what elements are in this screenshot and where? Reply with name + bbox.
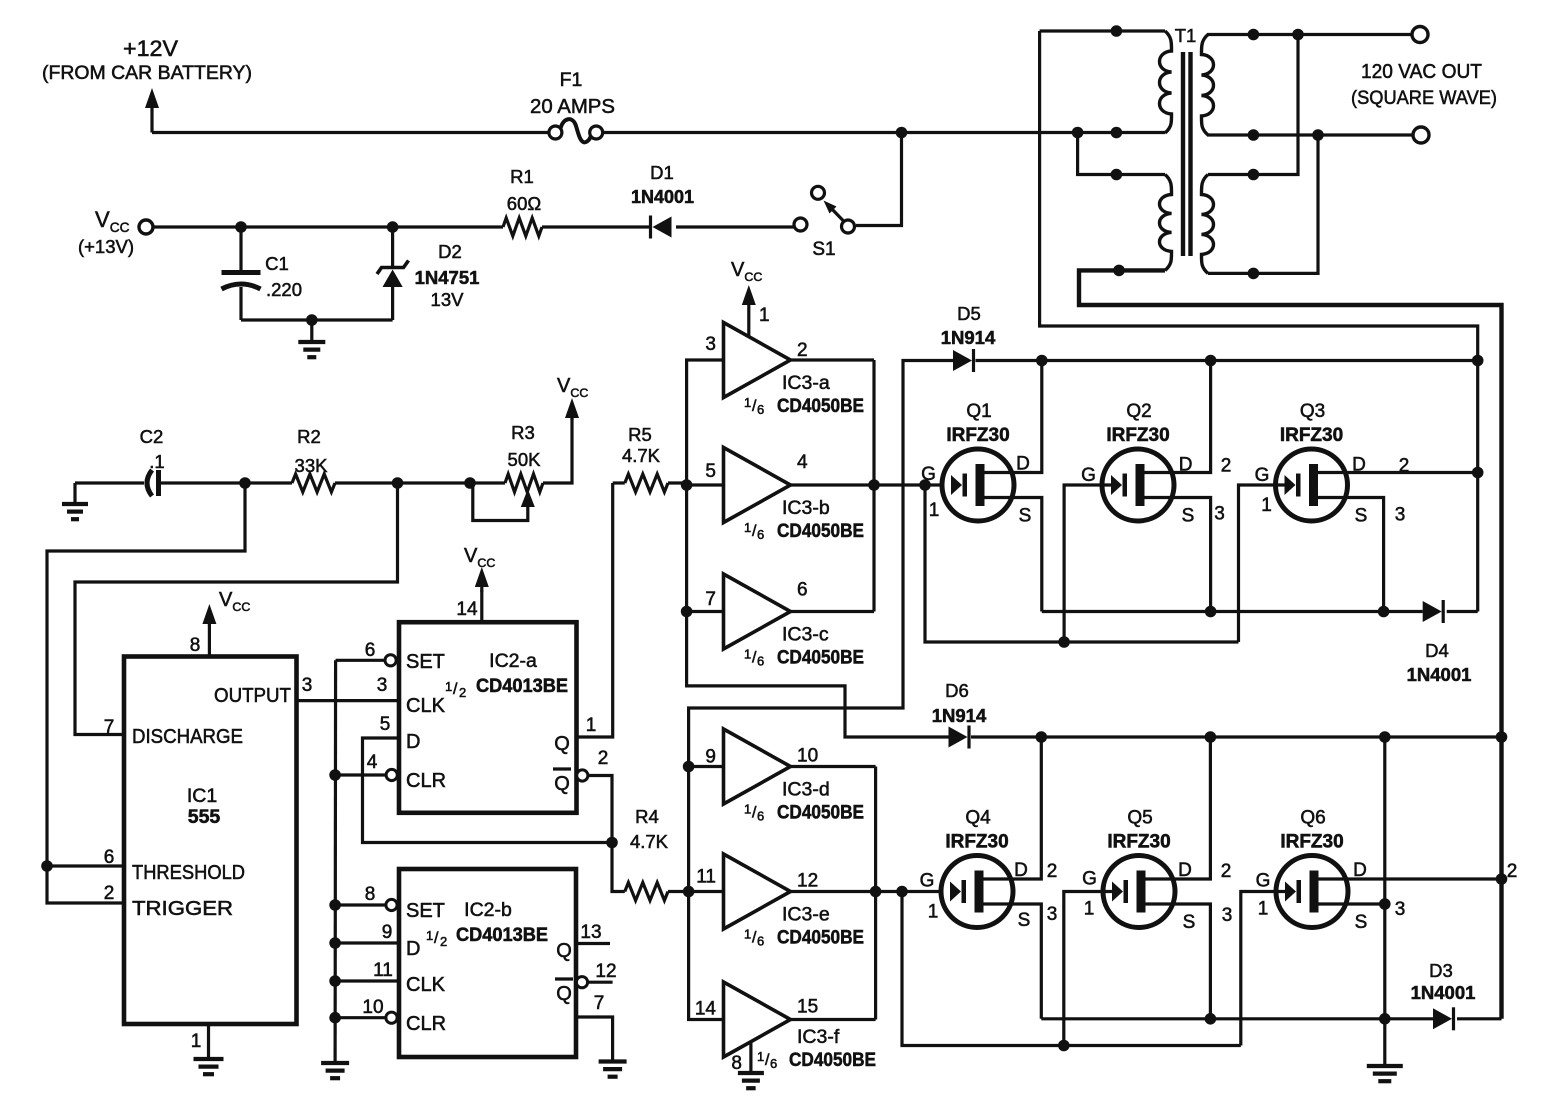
- svg-text:2: 2: [440, 934, 447, 949]
- terminal 120VAC neutral: [1413, 127, 1429, 143]
- svg-text:.1: .1: [149, 451, 164, 472]
- pin 3 input (IC3-a): [705, 334, 716, 355]
- flip-flop IC2-b block: [399, 869, 576, 1057]
- svg-text:G: G: [1256, 871, 1271, 892]
- flip-flop IC2-a block: [399, 622, 577, 813]
- junction C2/555 node: [239, 477, 251, 489]
- wire bus Qbar-side (R4 to IC3-d/e/f inputs and D5): [689, 361, 953, 1020]
- label IC2-b CD4013BE: [426, 899, 548, 949]
- resistor R3 50K: [505, 474, 543, 492]
- capacitor C2 .1: [147, 470, 159, 496]
- value label Q1 IRFZ30: [946, 401, 1009, 446]
- svg-text:IRFZ30: IRFZ30: [1280, 425, 1343, 446]
- svg-text:R4: R4: [635, 806, 659, 827]
- svg-text:G: G: [1081, 465, 1096, 486]
- value label Q2 IRFZ30: [1106, 401, 1169, 446]
- wire bus Q-side (R5 to IC3-a/b/c inputs and D6): [687, 360, 949, 737]
- svg-text:5: 5: [380, 714, 391, 735]
- svg-text:1N4001: 1N4001: [1407, 664, 1472, 685]
- fuse F1: [549, 119, 603, 142]
- wire IC3-e output to Q4 gate: [791, 890, 940, 893]
- svg-text:D2: D2: [438, 241, 462, 262]
- buffer IC3-c 1/6 CD4050BE: [724, 574, 791, 649]
- svg-text:/: /: [453, 681, 458, 698]
- pin 12 output (IC3-e): [797, 871, 818, 892]
- svg-text:F1: F1: [560, 69, 583, 91]
- svg-text:2: 2: [104, 883, 115, 904]
- svg-text:1: 1: [426, 928, 433, 943]
- svg-text:555: 555: [188, 806, 221, 828]
- svg-text:1: 1: [744, 802, 751, 817]
- wire line-B (primary top to D5 rail): [1040, 31, 1478, 612]
- pin G label (Q6): [1256, 871, 1271, 920]
- svg-text:IRFZ30: IRFZ30: [945, 832, 1008, 853]
- wire IC3-d output: [791, 765, 876, 768]
- transformer T1 primary winding upper: [1160, 31, 1172, 133]
- value label Q6 IRFZ30: [1280, 808, 1343, 853]
- svg-text:50K: 50K: [508, 449, 542, 470]
- svg-text:12: 12: [595, 961, 616, 982]
- pin 7 GND (IC2-b): [576, 993, 613, 1062]
- value label Q5 IRFZ30: [1107, 808, 1170, 853]
- svg-text:IC2-b: IC2-b: [464, 899, 512, 921]
- value label 1/6 CD4050BE (IC3-c): [744, 647, 864, 669]
- value label R4 4.7K: [630, 806, 669, 852]
- pin 5 input (IC3-b): [705, 461, 716, 482]
- transistor Q2 IRFZ30: [1102, 449, 1174, 521]
- svg-text:7: 7: [104, 717, 115, 738]
- junction secondary mid a: [1248, 129, 1260, 141]
- svg-text:11: 11: [696, 867, 716, 888]
- svg-text:DISCHARGE: DISCHARGE: [132, 726, 243, 748]
- wire osc feedback (to pins 2,6): [47, 483, 245, 903]
- terminal Vcc input: [139, 220, 153, 234]
- pin 14 input (IC3-f): [695, 999, 717, 1020]
- svg-text:IC3-c: IC3-c: [782, 624, 829, 646]
- svg-text:CC: CC: [570, 386, 588, 400]
- label IC3-c: [782, 624, 829, 646]
- svg-text:IC3-d: IC3-d: [782, 779, 830, 801]
- wire Q1 drain: [985, 361, 1042, 475]
- junction secondary top a: [1248, 29, 1260, 41]
- svg-text:8: 8: [190, 635, 201, 656]
- pin G label (Q1): [921, 464, 939, 521]
- svg-text:THRESHOLD: THRESHOLD: [132, 862, 245, 884]
- resistor R4 4.7K: [612, 843, 689, 901]
- ground (IC2 bus): [321, 1063, 349, 1078]
- pin 2 TRIGGER (555): [104, 883, 233, 920]
- svg-text:D: D: [406, 731, 420, 753]
- junction R4/IC3-e input: [683, 886, 695, 898]
- junction ground tap: [306, 314, 318, 326]
- svg-text:(SQUARE WAVE): (SQUARE WAVE): [1351, 87, 1497, 109]
- svg-text:1: 1: [445, 679, 452, 694]
- value label D2 1N4751 13V: [415, 241, 480, 310]
- svg-text:R2: R2: [297, 426, 321, 447]
- svg-text:CD4013BE: CD4013BE: [456, 925, 548, 946]
- wire top source rail: [1042, 610, 1423, 613]
- diode D6 1N914: [949, 726, 970, 749]
- svg-text:(+13V): (+13V): [78, 236, 134, 257]
- value label R5 4.7K: [622, 424, 661, 466]
- junction CLR bus (IC2-b): [329, 1012, 341, 1024]
- svg-text:S: S: [1355, 506, 1368, 527]
- pin 8 SET (IC2-b): [335, 884, 445, 922]
- pin 3 OUTPUT (555): [214, 675, 312, 707]
- svg-text:R3: R3: [511, 422, 535, 443]
- svg-text:G: G: [920, 871, 935, 892]
- svg-text:10: 10: [362, 997, 383, 1018]
- svg-text:2: 2: [459, 685, 466, 700]
- junction Q3 source rail: [1378, 606, 1390, 618]
- node +12V label: [42, 36, 252, 84]
- wire S1 branch: [856, 133, 902, 226]
- value label D1 1N4001: [631, 162, 694, 207]
- value label S1: [812, 239, 835, 260]
- pin 15 output (IC3-f): [797, 997, 818, 1018]
- op-amp IC1 555 block: [124, 657, 297, 1025]
- pin 1 Q (IC2-a): [554, 715, 596, 755]
- svg-text:D5: D5: [957, 303, 981, 324]
- ground (C2): [62, 483, 88, 519]
- junction threshold node: [41, 860, 53, 872]
- wire IC3-f output: [791, 1018, 876, 1021]
- value label F1 20 AMPS: [530, 69, 615, 118]
- wire Q1 source: [985, 498, 1042, 612]
- wire Q5 source: [1146, 904, 1233, 1019]
- junction secondary top b: [1292, 29, 1304, 41]
- ground (C1/D2): [298, 320, 325, 357]
- svg-text:IC2-a: IC2-a: [489, 650, 537, 672]
- transformer T1 secondary winding lower: [1201, 175, 1213, 274]
- svg-text:3: 3: [302, 675, 313, 696]
- svg-text:13: 13: [580, 922, 601, 943]
- buffer IC3-a 1/6 CD4050BE: [724, 323, 791, 398]
- wire Q6 drain: [1319, 860, 1518, 882]
- svg-text:6: 6: [757, 654, 764, 669]
- svg-text:15: 15: [797, 997, 818, 1018]
- svg-text:2: 2: [1507, 861, 1518, 882]
- wire primary bottom lead / line-A: [1079, 270, 1502, 1018]
- svg-text:OUTPUT: OUTPUT: [214, 685, 291, 707]
- svg-text:D4: D4: [1425, 640, 1449, 661]
- node 120 VAC OUT label: [1351, 61, 1497, 109]
- svg-text:4: 4: [367, 752, 378, 773]
- svg-text:D: D: [1179, 455, 1193, 476]
- svg-text:Q2: Q2: [1126, 401, 1151, 422]
- wire R2 to R3: [335, 481, 505, 484]
- node +12V arrow: [145, 88, 159, 133]
- svg-text:IRFZ30: IRFZ30: [1107, 832, 1170, 853]
- svg-text:CD4050BE: CD4050BE: [777, 521, 864, 542]
- pin 8 GND (IC3-f): [731, 1043, 750, 1075]
- svg-text:CD4050BE: CD4050BE: [789, 1050, 876, 1071]
- junction D5/Q2 drain: [1205, 355, 1217, 367]
- transformer T1 primary winding lower: [1160, 175, 1172, 271]
- junction primary top: [1111, 25, 1123, 37]
- svg-text:7: 7: [705, 589, 716, 610]
- pin 4 CLR (IC2-a): [335, 752, 446, 792]
- svg-text:1N914: 1N914: [941, 327, 996, 348]
- wire primary top lead: [1040, 29, 1165, 32]
- value label 1/6 CD4050BE (IC3-f): [757, 1049, 876, 1071]
- transistor Q1 IRFZ30: [942, 449, 1014, 521]
- junction bottom gate-bus tap: [896, 886, 908, 898]
- svg-text:1: 1: [744, 927, 751, 942]
- wire Q2 gate riser: [1064, 485, 1111, 642]
- wire Q6 gate riser: [1241, 892, 1285, 1046]
- svg-text:Q1: Q1: [966, 401, 991, 422]
- label T1: [1175, 25, 1197, 46]
- svg-text:1: 1: [191, 1031, 202, 1052]
- svg-text:2: 2: [1047, 861, 1058, 882]
- wire D5 rail: [976, 359, 1478, 362]
- svg-text:D: D: [1178, 860, 1192, 881]
- svg-text:1: 1: [928, 902, 939, 923]
- svg-text:D6: D6: [945, 680, 969, 701]
- wire IC3 a/c output bus: [872, 360, 875, 612]
- wire Q6 source: [1319, 899, 1406, 933]
- wire secondary top lead: [1207, 33, 1412, 36]
- svg-text:CLR: CLR: [406, 1013, 446, 1035]
- svg-text:S: S: [1019, 506, 1032, 527]
- junction secondary mid b: [1312, 129, 1324, 141]
- svg-text:Q4: Q4: [965, 808, 991, 829]
- svg-text:.220: .220: [266, 279, 302, 300]
- svg-text:4: 4: [797, 452, 808, 473]
- svg-text:20 AMPS: 20 AMPS: [530, 95, 615, 118]
- svg-text:CD4050BE: CD4050BE: [777, 648, 864, 669]
- capacitor C1: [222, 227, 261, 320]
- junction top gate-bus tap: [919, 479, 931, 491]
- svg-text:11: 11: [373, 960, 393, 981]
- wire SET/CLR ground bus: [334, 660, 338, 1063]
- svg-text:6: 6: [757, 402, 764, 417]
- svg-text:G: G: [921, 464, 936, 485]
- diode D4 1N4001: [1423, 600, 1478, 623]
- svg-text:C2: C2: [140, 426, 164, 447]
- svg-text:6: 6: [757, 527, 764, 542]
- svg-text:14: 14: [456, 599, 478, 620]
- svg-text:1: 1: [1084, 899, 1095, 920]
- svg-text:2: 2: [797, 340, 808, 361]
- wire 555 output to IC2-a CLK: [297, 699, 400, 702]
- pin 9 input (IC3-d): [705, 747, 716, 768]
- junction S1 branch: [896, 127, 908, 139]
- svg-text:6: 6: [797, 580, 808, 601]
- svg-text:7: 7: [594, 993, 605, 1014]
- svg-text:CD4050BE: CD4050BE: [777, 803, 864, 824]
- svg-text:S: S: [1183, 912, 1196, 933]
- pin G label (Q3): [1255, 465, 1272, 516]
- junction D5/Q1 drain: [1036, 355, 1048, 367]
- power Vcc (R3): [557, 375, 588, 420]
- svg-text:/: /: [434, 930, 439, 947]
- svg-text:C1: C1: [265, 253, 289, 274]
- svg-text:CD4013BE: CD4013BE: [476, 676, 568, 697]
- svg-text:IRFZ30: IRFZ30: [1106, 425, 1169, 446]
- pin 11 input (IC3-e): [696, 867, 716, 888]
- wire IC3-d input stub: [689, 765, 724, 768]
- svg-text:1: 1: [759, 305, 770, 326]
- svg-text:CLK: CLK: [406, 695, 446, 717]
- wire Q4 drain: [984, 737, 1058, 882]
- wire top gate bus: [925, 485, 1239, 642]
- transistor Q3 IRFZ30: [1276, 449, 1348, 521]
- buffer IC3-f 1/6 CD4050BE: [724, 982, 791, 1057]
- svg-text:1N4751: 1N4751: [415, 267, 480, 288]
- pin 9 D (IC2-b): [335, 922, 420, 960]
- value label D6 1N914: [932, 680, 987, 726]
- svg-text:6: 6: [757, 934, 764, 949]
- svg-text:6: 6: [104, 847, 115, 868]
- wire Q3 gate riser: [1239, 485, 1285, 642]
- wire IC3-b input stub: [687, 483, 724, 486]
- svg-text:60Ω: 60Ω: [507, 193, 542, 214]
- wire D-pin loop: [363, 738, 613, 843]
- junction D6/line-A: [1496, 731, 1508, 743]
- svg-text:CD4050BE: CD4050BE: [777, 928, 864, 949]
- transformer T1 core: [1183, 52, 1191, 256]
- svg-text:R5: R5: [628, 424, 652, 445]
- junction R3 wiper node: [464, 477, 476, 489]
- junction CLK bus (IC2-b): [329, 975, 341, 987]
- wire secondary lower-top cross link: [1208, 35, 1298, 175]
- label IC3-b: [782, 497, 830, 519]
- svg-text:2: 2: [1221, 456, 1232, 477]
- buffer IC3-b 1/6 CD4050BE: [724, 448, 791, 523]
- svg-text:3: 3: [1047, 904, 1058, 925]
- svg-text:D: D: [406, 938, 420, 960]
- svg-text:G: G: [1082, 869, 1097, 890]
- svg-text:SET: SET: [406, 651, 445, 673]
- wire IC3-b output to Q1 gate: [791, 483, 942, 486]
- label IC3-f: [797, 1026, 840, 1048]
- wire secondary lower-bottom cross link: [1208, 135, 1318, 273]
- terminal 120VAC hot: [1412, 27, 1428, 43]
- svg-text:V: V: [219, 589, 233, 611]
- resistor R1: [503, 218, 542, 236]
- wire Q5 drain: [1146, 737, 1232, 882]
- svg-text:IC1: IC1: [187, 785, 217, 807]
- wire IC3-c output: [791, 610, 875, 613]
- wire Q5 gate riser: [1064, 892, 1112, 1046]
- wire Vcc rail: [153, 225, 794, 228]
- junction R2-R3 node: [392, 477, 404, 489]
- svg-text:IRFZ30: IRFZ30: [1280, 832, 1343, 853]
- wire IC2-a Q to R5: [577, 483, 613, 737]
- svg-text:Q: Q: [554, 733, 570, 755]
- transformer T1 secondary winding upper: [1201, 35, 1213, 136]
- svg-text:10: 10: [797, 746, 818, 767]
- pin 14 Vcc (IC2-a): [456, 545, 495, 622]
- wire bottom source rail: [1041, 1017, 1433, 1020]
- wire primary lower top lead: [1078, 133, 1165, 175]
- pin 10 CLR (IC2-b): [335, 997, 446, 1035]
- junction D6/Q4 drain: [1036, 731, 1048, 743]
- value label 1/6 CD4050BE (IC3-b): [744, 520, 864, 542]
- junction D2 tap: [387, 221, 399, 233]
- transistor Q4 IRFZ30: [941, 856, 1013, 928]
- svg-text:1N914: 1N914: [932, 705, 987, 726]
- svg-text:SET: SET: [406, 900, 445, 922]
- svg-text:3: 3: [1395, 899, 1406, 920]
- svg-text:IRFZ30: IRFZ30: [946, 425, 1009, 446]
- wire IC2-a Qbar to D/R4 node: [588, 776, 612, 843]
- junction D5 rail / line-B: [1472, 355, 1484, 367]
- svg-text:1N4001: 1N4001: [631, 187, 694, 207]
- svg-text:1: 1: [586, 715, 597, 736]
- junction D3/ground node: [1379, 1013, 1391, 1025]
- wire Q3 source: [1318, 498, 1405, 612]
- pin 6 SET (IC2-a): [336, 640, 445, 673]
- svg-text:8: 8: [365, 884, 376, 905]
- wire Q2 source: [1145, 498, 1225, 612]
- svg-text:IC3-a: IC3-a: [782, 372, 830, 394]
- svg-text:D: D: [1014, 860, 1028, 881]
- ground (555 pin1): [194, 1059, 224, 1074]
- pin G label (Q2): [1081, 465, 1096, 486]
- node Vcc label: [78, 207, 134, 257]
- junction IC3-d input: [683, 761, 695, 773]
- junction CLR bus: [329, 769, 341, 781]
- svg-text:6: 6: [757, 809, 764, 824]
- junction IC3-c input: [681, 606, 693, 618]
- pin 6 output (IC3-c): [797, 580, 808, 601]
- wire D6 rail: [971, 735, 1502, 738]
- junction secondary lower-top: [1248, 169, 1260, 181]
- pin 7 DISCHARGE (555): [104, 717, 243, 748]
- junction D6/Q5 drain: [1205, 731, 1217, 743]
- svg-text:13V: 13V: [431, 289, 465, 310]
- svg-text:Q: Q: [556, 983, 572, 1005]
- svg-text:D: D: [1353, 860, 1367, 881]
- svg-text:120 VAC OUT: 120 VAC OUT: [1361, 61, 1482, 83]
- junction IC3-e output bus: [870, 886, 882, 898]
- svg-text:(FROM CAR BATTERY): (FROM CAR BATTERY): [42, 63, 252, 84]
- svg-text:IC3-e: IC3-e: [782, 904, 830, 926]
- svg-text:V: V: [557, 375, 571, 397]
- svg-text:4.7K: 4.7K: [622, 445, 661, 466]
- svg-text:D: D: [1352, 455, 1366, 476]
- svg-text:V: V: [731, 259, 745, 281]
- svg-text:4.7K: 4.7K: [630, 831, 669, 852]
- svg-text:33K: 33K: [295, 455, 329, 476]
- wire C1-D2 ground bus: [241, 318, 393, 321]
- svg-text:1: 1: [744, 395, 751, 410]
- pot R3 wiper: [473, 484, 535, 521]
- svg-text:12: 12: [797, 871, 818, 892]
- svg-text:S: S: [1018, 910, 1031, 931]
- wire R3 to Vcc: [543, 418, 572, 483]
- buffer IC3-e 1/6 CD4050BE: [724, 854, 791, 929]
- wire C2 to R2: [161, 481, 292, 484]
- pin 1 GND (555): [191, 1024, 209, 1059]
- svg-text:CLK: CLK: [406, 974, 446, 996]
- svg-text:CC: CC: [744, 270, 762, 284]
- ground (IC3-f pin8): [738, 1073, 764, 1088]
- svg-text:3: 3: [377, 675, 388, 696]
- svg-text:IC3-f: IC3-f: [797, 1026, 840, 1048]
- svg-text:IC3-b: IC3-b: [782, 497, 830, 519]
- svg-text:1N4001: 1N4001: [1411, 982, 1476, 1003]
- wire C2 left: [75, 481, 144, 484]
- svg-text:S: S: [1182, 506, 1195, 527]
- pin 2 Qbar (IC2-a): [553, 748, 608, 795]
- diode D5 1N914: [953, 349, 974, 372]
- svg-text:3: 3: [1214, 504, 1225, 525]
- junction IC3-b output bus: [868, 479, 880, 491]
